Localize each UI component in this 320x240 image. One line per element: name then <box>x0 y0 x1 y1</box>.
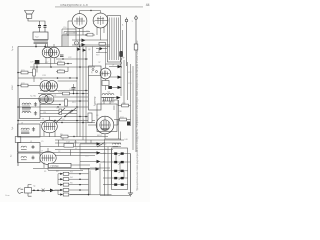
svg-text:к Тр1: к Тр1 <box>102 153 107 155</box>
component left of eye <box>88 113 92 123</box>
wire left bus <box>17 47 19 167</box>
switch bank rows <box>100 139 131 196</box>
tube Л5 (dual circle) <box>40 81 58 92</box>
switch contacts dark <box>114 152 124 185</box>
svg-text:R1: R1 <box>44 171 46 173</box>
svg-text:Л8: Л8 <box>96 115 98 117</box>
small round jack <box>75 41 79 45</box>
volume control <box>48 163 71 167</box>
svg-text:С38: С38 <box>118 111 121 113</box>
svg-text:L3: L3 <box>21 123 23 125</box>
svg-text:С27: С27 <box>45 62 48 64</box>
svg-text:Л5: Л5 <box>40 79 42 81</box>
tube Л3 leads <box>91 11 101 14</box>
dark cap right <box>127 122 130 126</box>
resistor R14 <box>63 92 70 95</box>
extra junction dots <box>54 10 91 147</box>
tube Л7 (small circle right) <box>100 68 111 79</box>
svg-text:С29: С29 <box>30 62 33 64</box>
svg-text:Л2: Л2 <box>58 151 60 153</box>
output transformer Тр2 <box>33 32 48 40</box>
junction dots stacked <box>79 173 89 195</box>
box below tube Л7 <box>102 81 109 86</box>
wire eye top right <box>114 100 118 110</box>
IF transformer can <box>108 16 121 63</box>
svg-text:R13: R13 <box>72 102 75 104</box>
wire speaker to plugs <box>28 18 45 25</box>
svg-text:L5: L5 <box>30 141 32 143</box>
wire top cross <box>62 21 110 45</box>
wire mid horizontals <box>18 59 95 123</box>
dial lamp resistors <box>63 172 69 196</box>
diode blobs top mid <box>82 39 86 43</box>
tube Л6 (output, dual circle) <box>42 47 59 58</box>
resistor R17 <box>58 70 65 73</box>
svg-text:Принципиальная схема радиоприе: Принципиальная схема радиоприемника «Све… <box>136 40 139 191</box>
svg-text:С32: С32 <box>128 72 131 74</box>
svg-text:ГРОМК.: ГРОМК. <box>51 165 60 168</box>
tube V6 leads <box>46 44 55 67</box>
svg-text:С9: С9 <box>56 107 58 109</box>
tube Л1 (RF, ellipse with grid bars) <box>42 120 58 133</box>
tube Л4 (dual circle) <box>39 94 54 103</box>
switch ticks <box>119 154 122 181</box>
diode Д1 <box>100 47 103 50</box>
svg-text:С33: С33 <box>128 83 131 85</box>
plug contacts <box>38 26 47 28</box>
svg-text:С8: С8 <box>62 119 64 121</box>
oscillator coil Тр3 <box>102 94 115 102</box>
switch bank enclosure <box>112 148 128 190</box>
wire transformer to tube <box>36 44 46 48</box>
wire plugs to transformer <box>40 27 46 32</box>
dark capacitor near winding <box>108 86 112 89</box>
svg-text:С21: С21 <box>53 95 56 97</box>
svg-text:Сеть: Сеть <box>5 195 10 197</box>
resistor R21 <box>21 71 28 74</box>
tube Л1 leads <box>44 117 55 138</box>
svg-text:С11: С11 <box>74 142 77 144</box>
svg-text:Л1: Л1 <box>42 119 44 121</box>
loudspeaker Гр1 <box>25 11 35 19</box>
wire middle vertical bus <box>77 47 86 144</box>
header rule <box>55 6 143 8</box>
harness cross verticals <box>59 137 92 156</box>
eye shield box <box>97 104 117 132</box>
junction dots <box>17 46 87 124</box>
extra specks <box>21 21 134 188</box>
power transformer winding top <box>113 143 121 146</box>
capacitor C22 <box>60 55 64 57</box>
wires of stacked resistors <box>55 144 89 196</box>
wire diagonal bottom <box>97 143 105 148</box>
magic eye tube 6Е5С <box>96 116 114 134</box>
band switch arrow contacts <box>117 65 122 99</box>
switch wiper diagonals <box>56 108 76 123</box>
tuner box 3 <box>18 143 41 153</box>
svg-text:6Е5С: 6Е5С <box>97 135 103 137</box>
tuner box 4 <box>18 153 41 163</box>
diode pair mid <box>77 48 81 51</box>
resistor R30 <box>122 104 129 107</box>
vertical resistor R8 <box>59 109 62 115</box>
svg-text:С14: С14 <box>85 156 88 158</box>
tube Л0 leads <box>44 148 52 170</box>
tube Л3 (IF amp, circle) <box>93 13 108 28</box>
svg-text:Ан: Ан <box>10 154 13 157</box>
coil squiggle right <box>120 58 122 68</box>
svg-text:С5: С5 <box>41 141 43 143</box>
resistor R26 <box>87 33 93 36</box>
fuse box on left bus <box>15 137 21 143</box>
wire harness horizontals <box>18 137 124 171</box>
svg-text:Адаптер: Адаптер <box>94 96 97 106</box>
svg-text:R11: R11 <box>86 31 89 33</box>
magic eye leads <box>88 120 121 140</box>
harness box <box>64 144 74 148</box>
diode bottom left <box>50 189 54 193</box>
trimmers box1 <box>34 102 37 116</box>
tuner box 1 (IF trans) <box>20 99 41 119</box>
svg-text:R17: R17 <box>59 70 62 72</box>
wire top bus <box>18 46 110 48</box>
svg-text:С16: С16 <box>63 27 66 29</box>
svg-text:СВЕРДЛОВСК А-8: СВЕРДЛОВСК А-8 <box>60 3 88 7</box>
svg-text:L9: L9 <box>112 65 114 67</box>
ground symbol bottom right <box>128 154 133 197</box>
wires into adapter top <box>93 47 108 67</box>
off-page connector arrows <box>96 142 101 171</box>
resistor R31 <box>120 118 127 121</box>
wire beside can <box>122 30 124 57</box>
svg-text:Пр: Пр <box>33 186 35 188</box>
svg-text:Тр.ПЧ: Тр.ПЧ <box>30 96 36 98</box>
svg-text:С18: С18 <box>73 33 76 35</box>
electrolytic capacitor С29 <box>35 60 40 64</box>
tuner box 2 <box>18 124 41 137</box>
tube Л2 leads <box>80 11 92 14</box>
svg-text:44: 44 <box>146 3 150 7</box>
fuse box mains <box>25 188 32 193</box>
capacitor on ground lead <box>134 44 138 50</box>
resistor R13 vertical <box>65 99 68 106</box>
svg-text:С22: С22 <box>68 57 71 59</box>
mains wires <box>28 185 60 197</box>
tube Л0 (mixer, ellipse with grid bars) <box>40 152 56 165</box>
capacitor C24 <box>72 88 76 90</box>
wires to arrows <box>101 67 118 98</box>
svg-text:Тр3: Тр3 <box>107 92 110 94</box>
resistor R20 vertical <box>33 69 36 76</box>
tube Л2 (converter, circle) <box>72 14 87 29</box>
electrolytic on right <box>119 51 122 57</box>
harness resistor <box>61 135 68 138</box>
svg-text:L7: L7 <box>41 151 43 153</box>
wire right bus <box>119 57 134 150</box>
svg-text:R7: R7 <box>75 148 77 150</box>
svg-text:R19: R19 <box>96 55 99 57</box>
antenna terminal <box>125 19 128 22</box>
mains plug Сеть <box>18 188 24 194</box>
transformer windings <box>34 41 49 44</box>
svg-text:6П6С: 6П6С <box>12 84 14 90</box>
resistor R16 <box>58 62 65 65</box>
resistor R22 <box>21 84 28 87</box>
wire bottom enclosure <box>70 164 112 195</box>
adapter box <box>89 66 102 110</box>
resistor R27 <box>99 43 106 46</box>
coils box1 <box>22 103 31 113</box>
ground terminal <box>135 17 138 20</box>
